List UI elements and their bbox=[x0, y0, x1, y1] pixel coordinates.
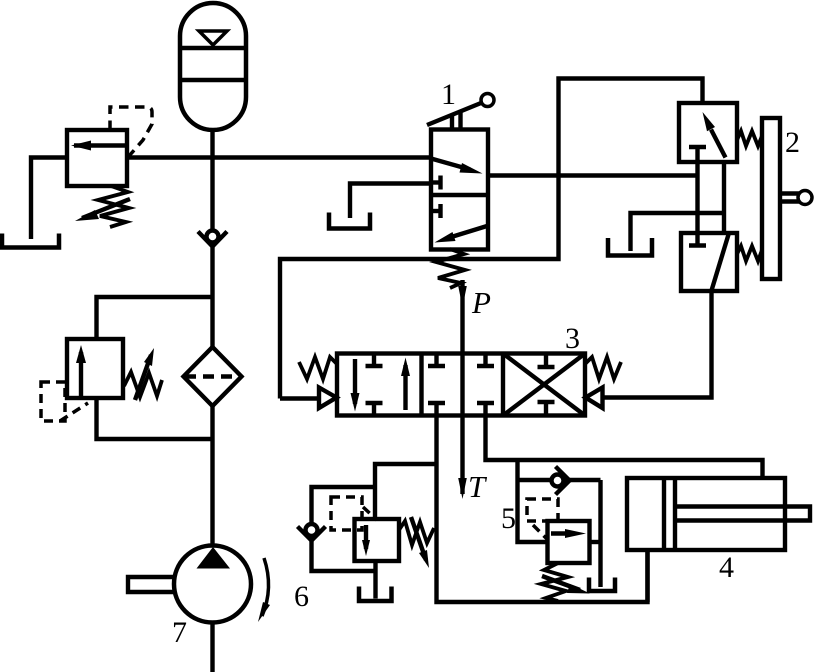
wire P line bbox=[460, 280, 464, 494]
relief valve spring adjust arrow bbox=[82, 199, 130, 218]
pump inlet wire bbox=[210, 622, 214, 672]
valve 3 divider 1 bbox=[419, 354, 423, 416]
valve 1 lower arrow bbox=[448, 226, 487, 238]
valve 3 sec3 blocked top bbox=[544, 354, 548, 368]
bypass relief valve arrow bbox=[79, 352, 83, 396]
component 2 upper arrow bbox=[711, 130, 726, 158]
valve 1 lower blocked port bbox=[431, 209, 441, 213]
wire pilot rail upper loop bbox=[280, 79, 703, 399]
cylinder piston bbox=[662, 478, 666, 550]
filter diamond bbox=[184, 347, 242, 406]
tank symbol valve6 bbox=[359, 587, 392, 602]
wire relief valve left to tank bbox=[31, 158, 67, 240]
check valve bypass valve6 bbox=[312, 487, 376, 524]
wire valve6 branch bbox=[375, 464, 437, 519]
valve 3 left spring bbox=[299, 357, 337, 379]
valve 5 spring bbox=[541, 563, 568, 601]
pump triangle bbox=[197, 547, 231, 569]
valve 6 adjust arrow bbox=[411, 517, 426, 560]
wire filter to pump bbox=[210, 406, 214, 547]
valve 1 spring bbox=[436, 249, 465, 288]
pump shaft bbox=[128, 577, 176, 592]
wire valve6 outlet bbox=[373, 561, 377, 599]
svg-text:T: T bbox=[468, 469, 488, 504]
valve 1 lever bbox=[427, 103, 481, 125]
valve 3 sec2 blocked top B bbox=[483, 354, 487, 367]
svg-text:P: P bbox=[471, 285, 491, 320]
component 2 cam plate bbox=[762, 118, 780, 279]
valve 5 box bbox=[548, 521, 590, 563]
bypass relief valve box bbox=[67, 339, 123, 398]
svg-text:7: 7 bbox=[172, 616, 187, 649]
wire valve5 right port bbox=[590, 540, 601, 544]
pump rotation arrow bbox=[262, 558, 269, 616]
svg-text:6: 6 bbox=[294, 580, 309, 613]
filter dashed element bbox=[185, 374, 240, 378]
accumulator divider line lower bbox=[181, 78, 245, 82]
accumulator divider line upper bbox=[181, 46, 245, 50]
valve 3 sec2 blocked bottom B bbox=[483, 403, 487, 416]
wire valve1 left to tank bbox=[350, 184, 431, 219]
pump circle bbox=[174, 546, 251, 623]
wire main rail bbox=[127, 155, 431, 159]
valve 5 adjust arrow bbox=[542, 576, 580, 590]
valve 5 pilot dashed diagonal bbox=[533, 525, 547, 539]
component 2 upper spring bbox=[737, 131, 762, 146]
wire right pilot bbox=[603, 291, 712, 398]
valve 5 arrow bbox=[551, 531, 568, 535]
valve 3 sec1 blocked bottom bbox=[372, 403, 376, 416]
relief valve spring bbox=[98, 186, 129, 227]
wire accumulator down bbox=[210, 130, 214, 230]
component 2 lower diagonal bbox=[712, 235, 729, 291]
valve 3 sec2 blocked top A bbox=[434, 354, 438, 367]
svg-text:1: 1 bbox=[441, 78, 456, 111]
valve 1 divider bbox=[431, 193, 488, 197]
component 2 lower spring bbox=[737, 246, 762, 261]
cylinder bottom port wire bbox=[645, 550, 649, 602]
tank symbol left bbox=[2, 234, 59, 248]
wire valve5 left branch bbox=[518, 460, 548, 542]
tank symbol valve1 bbox=[329, 213, 370, 229]
component 2 roller bbox=[798, 191, 812, 205]
relief valve pilot dashed line bbox=[110, 107, 152, 156]
component 2 upper valve box bbox=[679, 103, 737, 162]
wire to left pilot triangle bbox=[280, 396, 319, 400]
bypass relief valve adjust arrow bbox=[135, 355, 151, 400]
svg-text:4: 4 bbox=[719, 551, 734, 584]
tank symbol component2 bbox=[608, 238, 652, 256]
valve 5 pilot dashed box bbox=[527, 499, 558, 521]
valve 3 sec3 X path bbox=[503, 354, 585, 416]
cylinder rod bbox=[675, 507, 810, 521]
wire component2 tank branch bbox=[631, 213, 725, 251]
valve 3 sec1 blocked top bbox=[372, 354, 376, 367]
valve 1 body bbox=[431, 130, 488, 250]
wire bypass top bbox=[97, 297, 213, 339]
wire bypass bottom bbox=[97, 398, 213, 439]
valve 3 right spring bbox=[585, 357, 621, 379]
P arrow head bbox=[458, 286, 467, 307]
valve 1 upper blocked port bbox=[431, 180, 441, 184]
valve 3 left pilot triangle bbox=[319, 388, 337, 409]
component 2 roller stem bbox=[780, 191, 799, 195]
svg-text:2: 2 bbox=[785, 126, 800, 159]
valve 3 right pilot triangle bbox=[586, 388, 603, 409]
valve 6 pilot dashed diagonal bbox=[363, 507, 377, 520]
bypass relief valve pilot dashed box bbox=[41, 382, 65, 421]
valve 3 body bbox=[337, 354, 585, 416]
wire check valve to filter bbox=[210, 246, 214, 348]
valve 3 sec1 down arrow bbox=[353, 359, 357, 404]
relief valve box top-left bbox=[67, 130, 127, 186]
component 2 lower valve box bbox=[681, 233, 737, 291]
wire valve1 right port bbox=[488, 173, 698, 177]
tank symbol valve5 bbox=[589, 578, 615, 592]
svg-text:3: 3 bbox=[565, 322, 580, 355]
accumulator gas triangle bbox=[199, 31, 227, 45]
wire component2 mid port bbox=[722, 162, 726, 233]
check valve above valve5 bbox=[518, 478, 601, 482]
cylinder 4 body bbox=[627, 478, 785, 550]
accumulator shell bbox=[180, 3, 246, 130]
valve 6 pilot dashed box bbox=[331, 497, 362, 530]
svg-text:5: 5 bbox=[501, 502, 516, 535]
bypass relief valve spring bbox=[124, 372, 162, 397]
valve 3 sec1 up arrow bbox=[403, 365, 407, 410]
pump outlet wire bbox=[210, 546, 214, 547]
valve 3 divider 2 bbox=[501, 354, 505, 416]
wire valve5 right vertical bbox=[598, 480, 602, 587]
valve 1 upper arrow bbox=[431, 159, 470, 170]
component 2 blocked port line bbox=[689, 145, 706, 149]
valve 1 stem bbox=[450, 116, 454, 130]
valve 6 box bbox=[355, 519, 400, 561]
wire A line down bbox=[437, 416, 648, 603]
valve 3 sec2 blocked bottom A bbox=[434, 403, 438, 416]
relief valve arrow bbox=[74, 143, 125, 147]
check valve below accumulator bbox=[198, 232, 227, 247]
valve 3 sec3 blocked bottom bbox=[544, 402, 548, 416]
wire B line bbox=[486, 416, 763, 479]
valve 6 down arrow bbox=[364, 525, 368, 549]
bypass relief valve pilot dashed diagonal bbox=[60, 403, 88, 421]
valve 6 spring bbox=[399, 521, 434, 545]
T arrow head bbox=[458, 478, 467, 499]
